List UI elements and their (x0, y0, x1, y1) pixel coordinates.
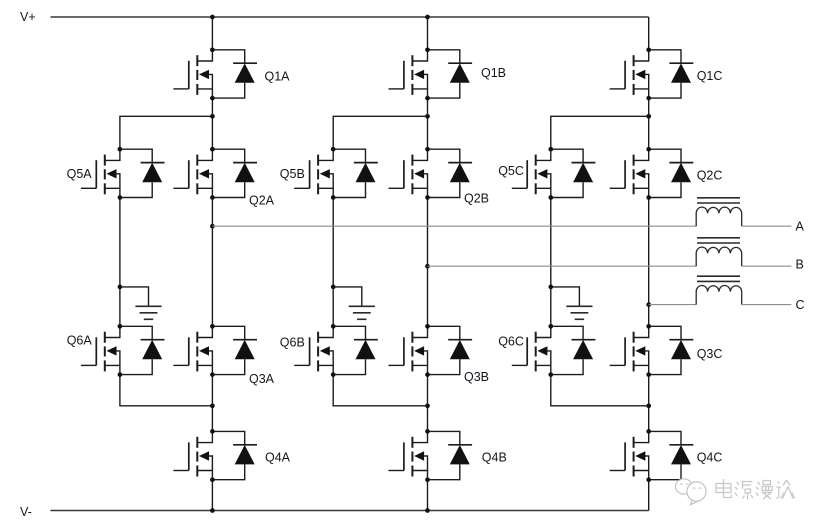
svg-text:Q1A: Q1A (265, 69, 291, 83)
node: V+ rail junction dot phase B (425, 15, 430, 20)
node: junction dot bus/branch bottom phase C (646, 403, 651, 408)
svg-text:Q5C: Q5C (498, 164, 524, 178)
wire: output line phase B to inductor (428, 265, 697, 267)
transistor Q5B (N-MOSFET with body diode) (294, 147, 378, 200)
node: junction dot bus/branch top phase C (646, 114, 651, 119)
node: output junction dot phase B (425, 264, 430, 269)
svg-text:A: A (796, 220, 805, 234)
wire: Q2A source to Q3A drain (through output node A) (211, 198, 213, 327)
wire: ground stub of phase B (333, 287, 362, 306)
transistor Q1B (N-MOSFET with body diode) (389, 47, 473, 100)
watermark text 电源漫谈 (stylised) (716, 479, 795, 500)
node: V+ rail junction dot phase A (210, 15, 215, 20)
node: ground tap dot phase C (548, 285, 553, 290)
wire: Q5C source to Q6C drain (through ground tap) (550, 198, 552, 327)
wire: Q1A source to Q2A drain (through node) (211, 98, 213, 149)
transistor Q4A (N-MOSFET with body diode) (173, 429, 257, 482)
transistor Q6C (N-MOSFET with body diode) (512, 324, 596, 377)
ground symbol phase B (349, 306, 375, 319)
wire: Q4C source to V- rail (648, 480, 650, 511)
transistor Q4C (N-MOSFET with body diode) (610, 429, 694, 482)
wire: Q3C source to Q4C drain (648, 375, 650, 432)
wire: ground stub of phase C (551, 287, 580, 306)
transistor Q5A (N-MOSFET with body diode) (81, 147, 165, 200)
svg-text:Q1C: Q1C (697, 69, 723, 83)
svg-text:Q5A: Q5A (67, 167, 93, 181)
ground symbol phase A (135, 306, 161, 319)
wire: Q5A source to Q6A drain (through ground tap) (119, 198, 121, 327)
node: V- rail junction dot phase B (425, 508, 430, 513)
svg-text:Q4B: Q4B (482, 451, 507, 465)
svg-text:Q6A: Q6A (67, 334, 93, 348)
wire: Q6B source down and back to bus (333, 375, 427, 406)
wire: V+ rail to Q1B drain (427, 17, 429, 50)
inductor LB (696, 238, 742, 266)
svg-text:Q4C: Q4C (697, 451, 723, 465)
inductor LC (696, 276, 742, 304)
wire: output line phase A to inductor (212, 225, 696, 227)
svg-text:Q1B: Q1B (481, 66, 506, 80)
wire: Q5B source to Q6B drain (through ground tap) (332, 198, 334, 327)
node: junction dot bus/branch top phase B (425, 114, 430, 119)
transistor Q3B (N-MOSFET with body diode) (389, 324, 473, 377)
node: junction dot bus/branch top phase A (210, 114, 215, 119)
transistor Q2A (N-MOSFET with body diode) (173, 147, 257, 200)
wire: Q6C source down and back to bus (551, 375, 649, 406)
wire: V+ rail to Q1A drain (211, 17, 213, 50)
svg-text:Q5B: Q5B (280, 167, 305, 181)
node: V- rail junction dot phase A (210, 508, 215, 513)
svg-text:V+: V+ (20, 10, 36, 24)
wire: ground stub of phase A (120, 287, 149, 306)
transistor Q3A (N-MOSFET with body diode) (173, 324, 257, 377)
inductor LA (696, 198, 742, 226)
transistor Q5C (N-MOSFET with body diode) (512, 147, 596, 200)
svg-text:C: C (796, 298, 805, 312)
wire: V+ rail to Q1C drain (648, 17, 650, 50)
svg-text:V-: V- (20, 505, 32, 519)
watermark logo (chat bubbles) (675, 479, 706, 505)
ground symbol phase C (566, 306, 592, 319)
transistor Q2C (N-MOSFET with body diode) (610, 147, 694, 200)
wire: Q4B source to V- rail (427, 480, 429, 511)
transistor Q1C (N-MOSFET with body diode) (610, 47, 694, 100)
wire: inductor LB to terminal B (742, 265, 792, 267)
transistor Q3C (N-MOSFET with body diode) (610, 324, 694, 377)
node: ground tap dot phase A (118, 285, 123, 290)
node V- : negative supply rail (51, 510, 649, 512)
svg-text:B: B (796, 257, 804, 271)
node: output junction dot phase C (646, 302, 651, 307)
node: junction dot bus/branch bottom phase B (425, 403, 430, 408)
svg-text:Q2B: Q2B (464, 192, 489, 206)
transistor Q6B (N-MOSFET with body diode) (294, 324, 378, 377)
node: junction dot bus/branch bottom phase A (210, 403, 215, 408)
svg-text:Q2A: Q2A (249, 193, 275, 207)
wire: upper branch from bus to Q5A drain (120, 116, 212, 149)
wire: Q2C source to Q3C drain (through output node C) (648, 198, 650, 327)
transistor Q6A (N-MOSFET with body diode) (81, 324, 165, 377)
svg-text:Q3B: Q3B (464, 370, 489, 384)
wire: Q1C source to Q2C drain (through node) (648, 98, 650, 149)
wire: Q3A source to Q4A drain (211, 375, 213, 432)
svg-text:Q3C: Q3C (697, 347, 723, 361)
transistor Q1A (N-MOSFET with body diode) (173, 47, 257, 100)
wire: Q2B source to Q3B drain (through output node B) (427, 198, 429, 327)
svg-text:Q6B: Q6B (280, 335, 305, 349)
svg-text:Q3A: Q3A (249, 372, 275, 386)
svg-text:Q6C: Q6C (498, 334, 524, 348)
wire: Q1B source to Q2B drain (through node) (427, 98, 429, 149)
transistor Q2B (N-MOSFET with body diode) (389, 147, 473, 200)
wire: upper branch from bus to Q5B drain (333, 116, 427, 149)
transistor Q4B (N-MOSFET with body diode) (389, 429, 473, 482)
wire: output line phase C to inductor (649, 304, 697, 306)
node V+ : positive supply rail (51, 16, 649, 18)
wire: Q6A source down and back to bus (120, 375, 212, 406)
svg-text:Q4A: Q4A (265, 451, 291, 465)
wire: Q4A source to V- rail (211, 480, 213, 511)
node: ground tap dot phase B (331, 285, 336, 290)
wire: Q3B source to Q4B drain (427, 375, 429, 432)
wire: inductor LC to terminal C (742, 304, 792, 306)
node: output junction dot phase A (210, 224, 215, 229)
wire: inductor LA to terminal A (742, 225, 792, 227)
svg-text:Q2C: Q2C (697, 169, 723, 183)
wire: upper branch from bus to Q5C drain (551, 116, 649, 149)
